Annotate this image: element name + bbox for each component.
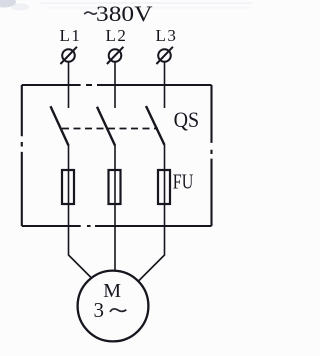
switch QS pole 1 blade <box>51 106 69 145</box>
fuse FU 1 <box>62 170 74 204</box>
wire pole2 blade to fuse <box>114 145 116 171</box>
supply label ~380V <box>84 12 97 14</box>
switch linkage (dashed) <box>62 128 158 130</box>
wire through fuse 2 <box>114 170 116 226</box>
terminal L3 <box>156 47 173 64</box>
fuse FU 2 <box>109 170 121 204</box>
corner smudge <box>0 0 16 8</box>
svg-text:L1: L1 <box>60 26 82 45</box>
svg-text:3: 3 <box>94 298 105 322</box>
motor label tilde <box>110 309 126 312</box>
switch QS pole 2 blade <box>97 107 115 146</box>
wire fuse3 to motor <box>138 226 165 282</box>
wire through fuse 3 <box>164 170 166 226</box>
terminal L1 <box>60 47 77 64</box>
wire pole1 blade to fuse <box>68 145 70 171</box>
terminal L2 <box>107 47 124 64</box>
svg-text:QS: QS <box>174 107 200 132</box>
motor M circle <box>78 271 149 342</box>
svg-text:L3: L3 <box>156 26 178 45</box>
wire L3 terminal to switch <box>164 62 166 108</box>
svg-text:L2: L2 <box>106 26 128 45</box>
wire L1 terminal to switch <box>68 62 70 108</box>
wire pole3 blade to fuse <box>164 145 166 171</box>
svg-text:380V: 380V <box>96 1 153 26</box>
svg-text:FU: FU <box>173 170 194 194</box>
enclosure box (chain line) <box>22 85 212 226</box>
switch QS pole 3 blade <box>146 106 165 145</box>
wire L2 terminal to switch <box>114 62 116 108</box>
wire fuse1 to motor <box>69 226 93 279</box>
svg-text:M: M <box>103 280 121 302</box>
wire fuse2 to motor <box>114 226 116 271</box>
fuse FU 3 <box>158 170 170 204</box>
wire through fuse 1 <box>68 170 70 226</box>
